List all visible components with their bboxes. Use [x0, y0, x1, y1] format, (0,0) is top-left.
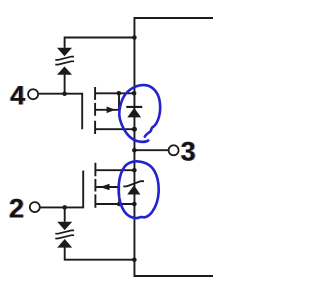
svg-text:3: 3 [181, 136, 196, 166]
svg-text:2: 2 [9, 193, 24, 223]
svg-text:4: 4 [10, 80, 25, 110]
